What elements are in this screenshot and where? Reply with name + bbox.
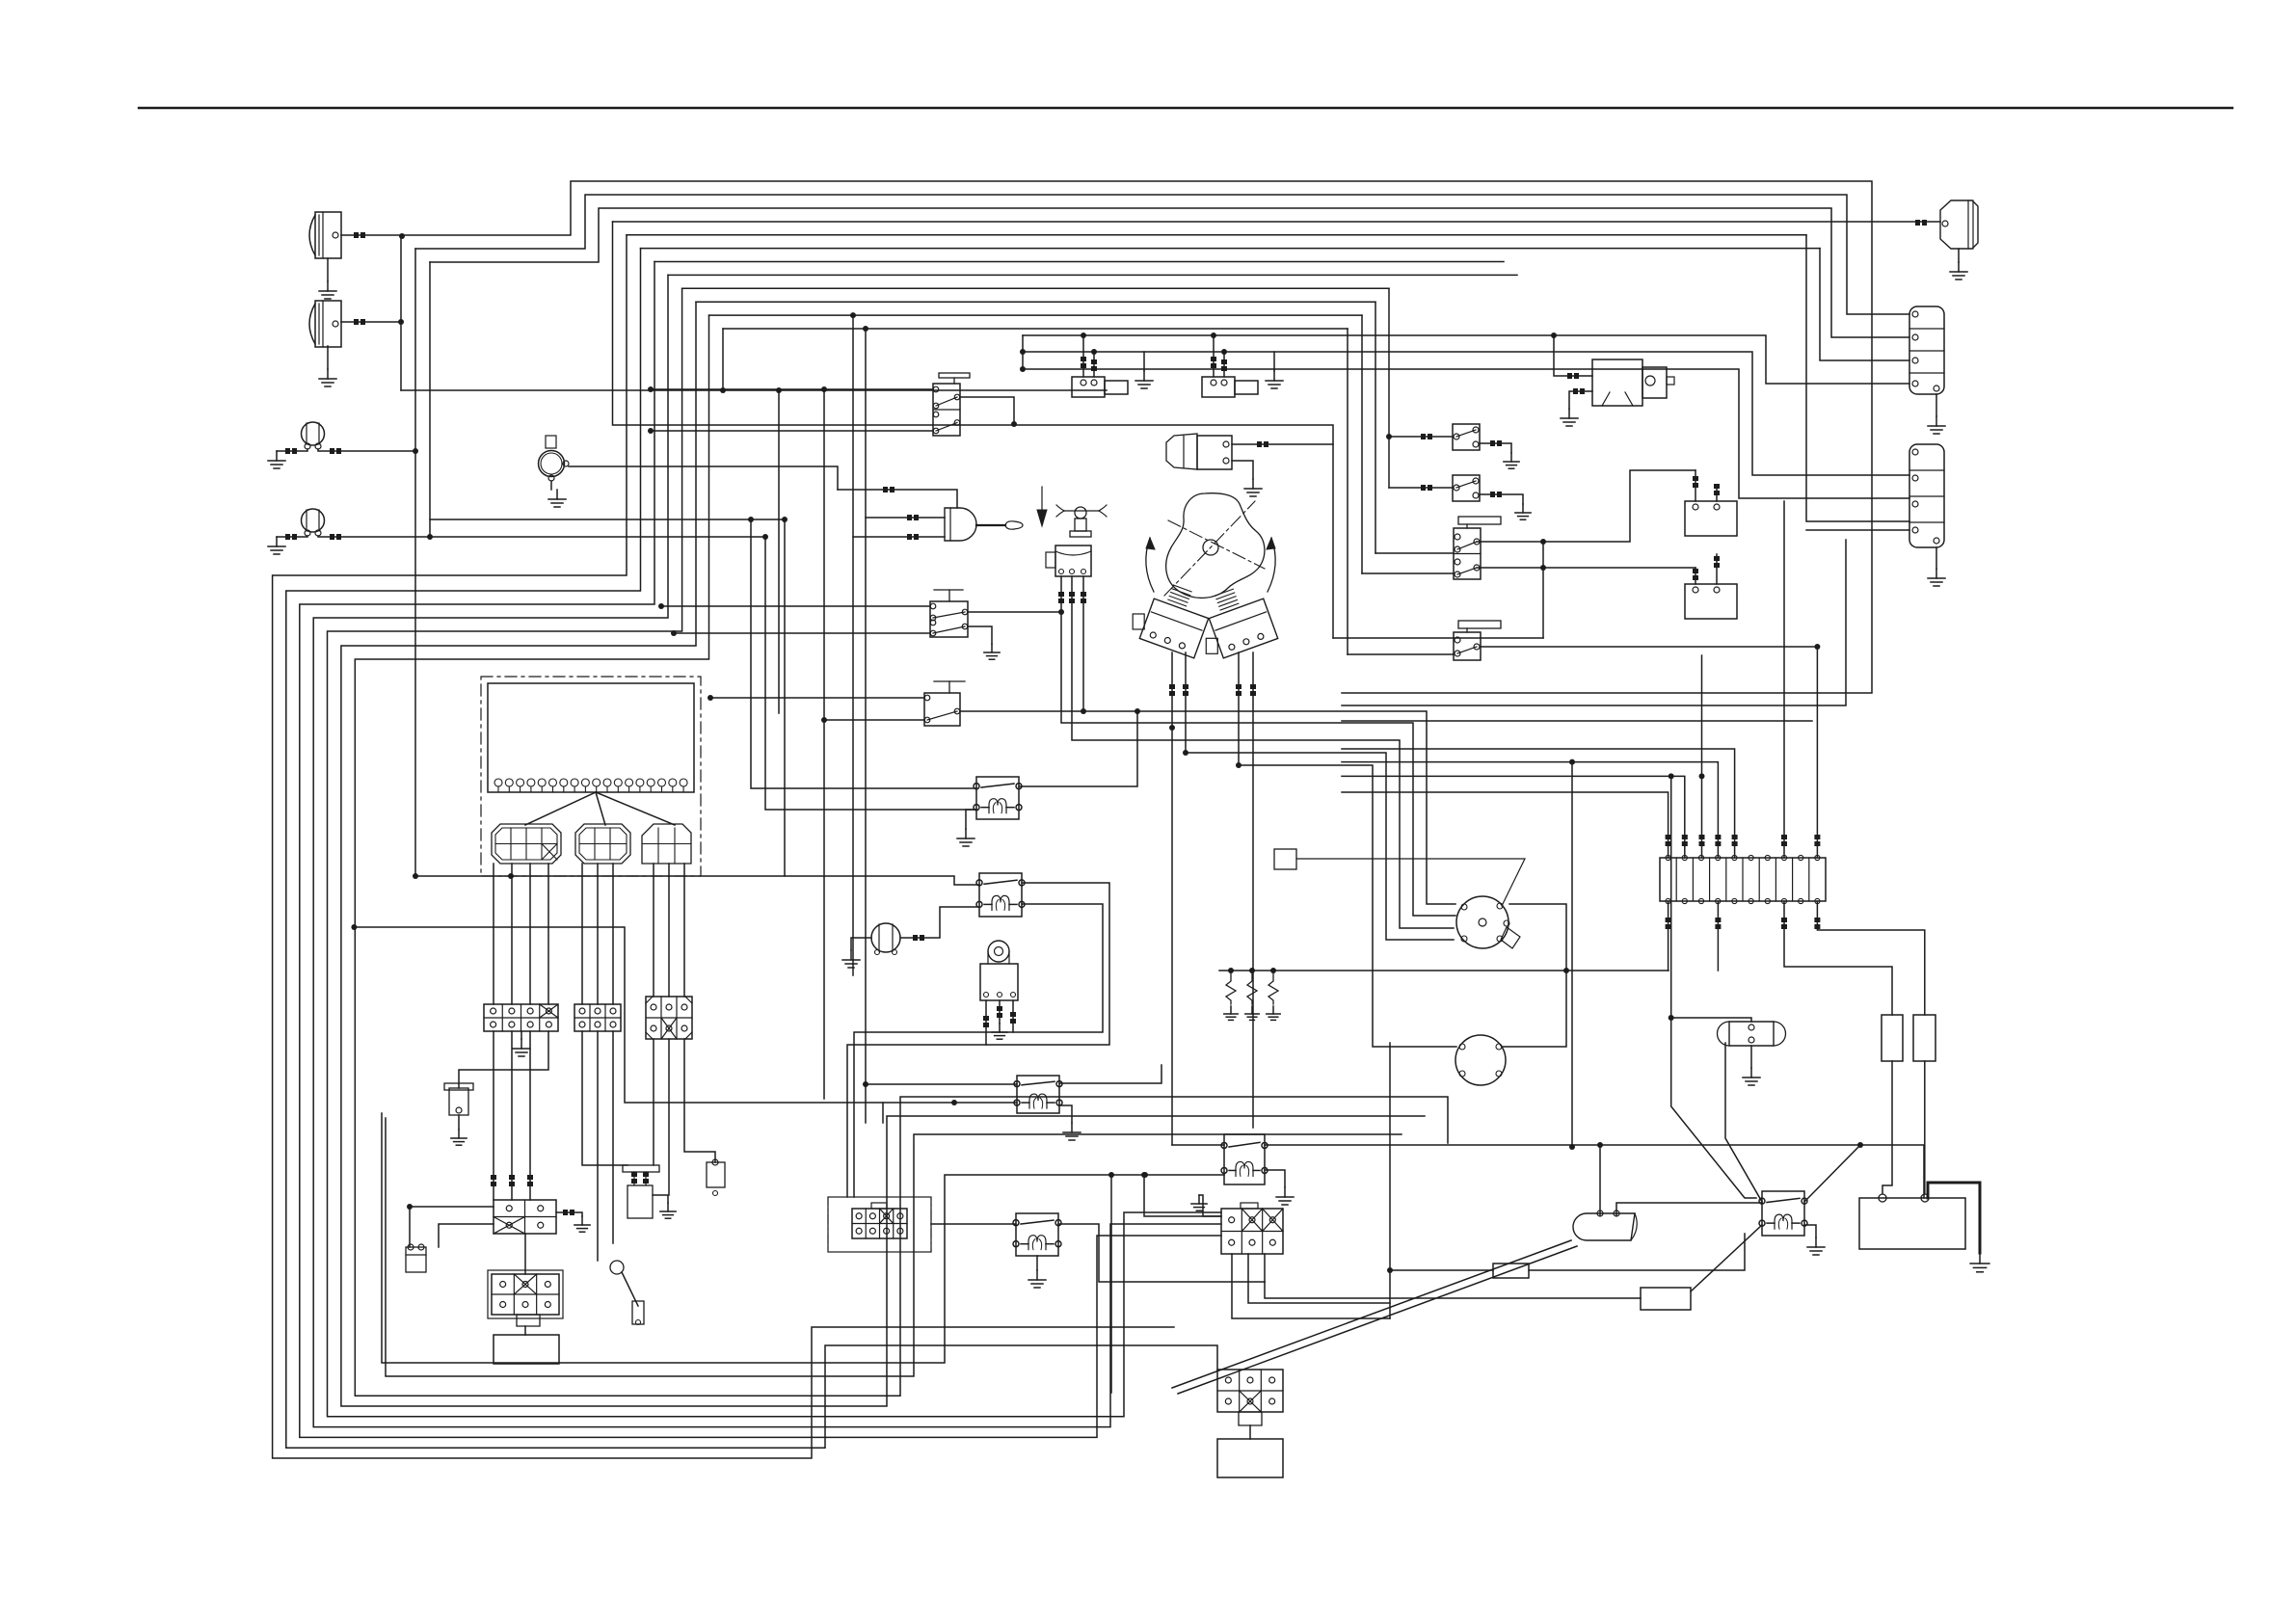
wire y405 drop	[778, 390, 780, 713]
battery BAT	[1859, 1194, 1965, 1249]
junction x1631 bot	[1569, 1144, 1575, 1150]
junction CX1 tap	[1141, 1172, 1147, 1178]
wire HR pin3	[1010, 1000, 1016, 1032]
instrument cluster fan wires	[525, 792, 675, 825]
wire x898 up	[865, 329, 867, 518]
wire RB1 drop	[1882, 1061, 1892, 1193]
junction RL6 tap	[1857, 1142, 1863, 1148]
wire RL5 riser	[1172, 1144, 1224, 1146]
wire riser x855	[823, 389, 825, 1099]
ground CX1	[1191, 1195, 1207, 1211]
wire bundle line 12 right drop	[1347, 329, 1348, 654]
wire bundle line 9 top run	[682, 287, 1389, 289]
junction y805 tap	[1669, 773, 1674, 779]
junction SW4 b	[821, 717, 827, 723]
junction res c	[1270, 968, 1276, 973]
wire CA pin 1 drop	[493, 864, 494, 1004]
arrow arc right	[1267, 538, 1275, 592]
wire FB riser x1765	[1699, 655, 1705, 858]
wire HR1 lead	[1915, 220, 1927, 226]
wire bundle line 8 top run	[668, 274, 1517, 276]
wire CC pin 1 drop	[653, 864, 654, 997]
horn H1	[539, 436, 570, 481]
ground RL6	[1804, 1225, 1825, 1255]
wire RES2 left	[1265, 1282, 1641, 1298]
wire FB bot4	[1814, 901, 1924, 1015]
wire CAP gnd	[1750, 1046, 1752, 1068]
wire flasher left	[851, 938, 871, 950]
wire JB2 p2 drop	[597, 1031, 599, 1261]
wire bundle loop 6 (left/bottom)	[286, 249, 1217, 1449]
junction RBL	[407, 1204, 413, 1210]
wire main y905	[415, 876, 979, 885]
wire handle b	[853, 534, 945, 975]
wire ign pin R2	[1250, 652, 1256, 1128]
junction SWC1 out1	[1540, 539, 1546, 545]
wire FB feed y777	[1342, 749, 1738, 858]
wire x885 up	[852, 315, 854, 537]
junction y905	[413, 873, 514, 879]
junction cap feed	[1669, 1015, 1674, 1021]
wire CB pin 3 drop	[612, 864, 614, 1004]
switch SW1 (light)	[933, 373, 970, 436]
horn relay HR	[980, 941, 1018, 1000]
wire CN2 pin4 jog	[1806, 529, 1909, 531]
resistor R7	[1493, 1264, 1529, 1278]
wire L1 right	[318, 448, 415, 454]
lamp block LB	[488, 1270, 563, 1318]
connector CX1	[1221, 1203, 1283, 1254]
lamp L1	[302, 422, 325, 449]
arrow down	[1037, 487, 1047, 526]
wire SW1 out	[960, 397, 1014, 423]
wire riser x779	[751, 519, 976, 788]
wire HL1 lead	[341, 232, 401, 238]
wire SW1 feed a	[651, 388, 933, 390]
junction FB x1765	[1699, 773, 1705, 779]
wire line y348	[1023, 335, 1909, 384]
ignition contact left	[1133, 585, 1209, 658]
wire RL6 diag1	[1725, 1043, 1762, 1202]
wire IC gnd	[1232, 461, 1253, 479]
junction SL1 b	[1091, 349, 1097, 355]
wire bundle line 11 top run	[709, 314, 1363, 316]
junction SM	[1551, 333, 1557, 338]
wire flasher right	[900, 907, 979, 941]
wire headlamp-R feed (bundle line 1)	[401, 181, 1872, 693]
junction HL1 node	[399, 233, 405, 239]
wire bundle line 11 right drop	[1361, 315, 1363, 573]
condenser box	[1274, 849, 1296, 869]
key switch center	[1203, 540, 1218, 555]
meter box MB	[494, 1335, 559, 1364]
junction SL2 b	[1221, 349, 1227, 355]
wire x1733 drop	[1671, 776, 1756, 1198]
relay RL6	[1759, 1191, 1807, 1236]
wire SWA feed	[1389, 434, 1453, 439]
wire SW4 feed b	[824, 719, 924, 721]
junction y383	[1020, 366, 1026, 372]
wire CX1 feed	[1144, 1175, 1221, 1216]
junction riser x779	[748, 517, 754, 522]
wire RL5 gnd	[1265, 1170, 1285, 1187]
wire CX1 p1 ext	[1389, 1270, 1391, 1318]
ground SL2	[1266, 371, 1283, 388]
wire bundle line 5 right drop	[1806, 235, 1909, 521]
wire SWB feed	[1389, 485, 1453, 491]
wire bundle loop 9 (left/bottom)	[328, 288, 1222, 1417]
wire handle a branch	[866, 1083, 1017, 1085]
wire JB2 p1 drop	[582, 1031, 627, 1165]
wire SWC1 feed1	[1375, 552, 1454, 554]
wire FB bot2	[1715, 901, 1721, 971]
wire FB bot1	[1666, 901, 1671, 971]
junction res b	[1249, 968, 1255, 973]
headlamp HR1	[1940, 200, 1978, 249]
wire bundle line 7 top run	[654, 261, 1504, 263]
arrow arc left	[1146, 538, 1155, 592]
wire x1631 drop	[1571, 762, 1573, 1147]
wire AC loop	[1502, 904, 1566, 1047]
wire ign pin R1	[1236, 652, 1241, 765]
wire L1 collector	[414, 249, 416, 876]
junction L2 node a	[427, 534, 433, 540]
junction RL3	[951, 1100, 957, 1105]
wire CA pin 4 drop	[547, 864, 549, 1004]
junction res a	[1228, 968, 1234, 973]
wire riser x814	[784, 519, 786, 876]
ground RBL	[574, 1216, 590, 1232]
junction SWA	[1386, 434, 1392, 439]
wire CC pin 2 drop	[668, 864, 670, 997]
ground RL3 stub	[1059, 1105, 1081, 1140]
wire main y962	[354, 927, 1017, 1103]
fuse box FB	[1660, 855, 1826, 903]
alternator AC	[1455, 1035, 1506, 1085]
wire pump riser	[1599, 1145, 1601, 1215]
wire pump diag	[1172, 1240, 1577, 1394]
ground CN2	[1928, 569, 1945, 586]
wire L2 left to ground	[277, 534, 307, 540]
junction riser x855	[821, 386, 827, 392]
handle pull	[945, 508, 1023, 541]
wire RB2 drop	[1924, 1061, 1926, 1193]
wire bundle line 4 (switch feed)	[613, 222, 1941, 638]
wire JB3 p3 drop	[684, 1039, 715, 1162]
key switch cam	[1166, 493, 1265, 599]
wire LB to MB	[524, 1326, 526, 1335]
wire JB1 p1 drop	[491, 1031, 496, 1200]
wire SWC1 feed2	[1362, 572, 1454, 574]
wire bundle loop 5 (left/bottom)	[273, 235, 1174, 1458]
junction block JB2	[574, 1004, 621, 1031]
ground HR	[992, 1024, 1007, 1039]
capacitor CAP	[1718, 1022, 1786, 1046]
wire SWC1 out2	[1477, 567, 1695, 569]
wire HL2 collector	[400, 235, 402, 390]
connector CN2	[1909, 444, 1944, 547]
junction riser x794	[762, 534, 768, 540]
indicator box IB	[1217, 1439, 1283, 1477]
junction y405	[776, 387, 782, 393]
junction SL1 a	[1081, 333, 1086, 338]
solenoid SL2	[1202, 335, 1258, 397]
lever switch LS	[610, 1261, 644, 1325]
wire FB bot3	[1781, 901, 1892, 1015]
ground SL1	[1135, 371, 1153, 388]
plug PL3	[707, 1159, 725, 1196]
ground CN1	[1928, 416, 1945, 434]
wire RBL to LB	[524, 1234, 526, 1274]
junction SW4	[707, 695, 713, 701]
key switch crosslines	[1164, 501, 1265, 596]
instrument cluster enclosure	[481, 677, 701, 876]
switch SW-horn (plunger)	[1046, 507, 1091, 576]
ground SWB	[1515, 504, 1531, 519]
ground HR1	[1950, 249, 1967, 279]
junction RL5	[1142, 1172, 1148, 1178]
wire SW4 out long	[960, 711, 1455, 904]
starter motor SM	[1592, 359, 1674, 406]
wire RL6 LB diag	[1691, 1225, 1762, 1291]
switch SW3	[930, 590, 968, 637]
wire feeder x400	[386, 1118, 1402, 1376]
junction block JB3	[646, 997, 692, 1039]
wire FB riser x1851	[1781, 501, 1787, 858]
wire line A	[430, 519, 785, 520]
wire CX1 ground	[1199, 1195, 1221, 1216]
junction SW1 a	[648, 386, 654, 392]
wire cap feed	[1671, 1018, 1751, 1022]
wire bundle line 10 top run	[696, 301, 1375, 303]
junction y365	[1020, 349, 1026, 355]
wire SW-horn pin3	[1081, 576, 1086, 711]
relay RL2	[976, 873, 1025, 917]
wire bundle loop 10 (left/bottom)	[341, 302, 1425, 1406]
plug PL1	[406, 1244, 426, 1272]
relay box D1	[1685, 470, 1737, 536]
wire SW3 out2	[968, 626, 992, 644]
wire CA pin 2 drop	[511, 864, 513, 1004]
junction L1 node	[413, 448, 418, 454]
junction HL2 node	[398, 319, 404, 325]
wire CB pin 1 drop	[581, 864, 583, 1004]
wire L2 right	[318, 534, 765, 540]
wire SWC2 feed	[1348, 653, 1454, 655]
relay RL5	[1221, 1134, 1268, 1184]
ground SM	[1561, 409, 1578, 426]
relay RL1	[974, 777, 1022, 819]
wire HL2 lead	[341, 319, 401, 325]
headlamp HL2	[309, 301, 341, 347]
solenoid SL1	[1072, 335, 1128, 397]
wire CB pin 2 drop	[597, 864, 599, 1004]
wire R7 right	[1529, 1234, 1745, 1270]
wire RL5 out	[1265, 1145, 1924, 1198]
wire SM lead2	[1569, 388, 1592, 409]
wire SW3 feed b	[674, 632, 930, 634]
relay RL3	[1014, 1076, 1062, 1113]
top horizontal rule	[139, 107, 2232, 109]
ground HL1	[319, 258, 336, 299]
wire CA pin 3 drop	[529, 864, 531, 1004]
junction block JB1	[484, 1004, 558, 1031]
junction R7	[1387, 1267, 1393, 1273]
wire ign pin L2	[1183, 652, 1188, 753]
wire lamp feed (bundle line 3)	[430, 208, 1909, 337]
junction SW1 out node	[1011, 421, 1017, 427]
wire SW1 feed b	[651, 430, 933, 432]
connector enclosure CE	[828, 1197, 931, 1252]
wire JB3 p2 drop	[668, 1039, 670, 1195]
lamp block stub	[517, 1315, 540, 1326]
relay block RBL	[494, 1200, 556, 1234]
junction SWC1 out2	[1540, 565, 1546, 571]
headlamp HL1	[309, 212, 341, 258]
wire PL2 gnd	[458, 1115, 460, 1130]
junction y962	[351, 924, 357, 930]
wire RL2 out a	[847, 883, 1109, 1197]
ground LS2	[660, 1203, 676, 1218]
wire CX1 p3	[1264, 1254, 1266, 1282]
wire CX1 p2	[1248, 1254, 1390, 1303]
wire RBL left a	[410, 1206, 494, 1208]
wire CX2 stub	[1249, 1425, 1251, 1439]
wire HR pin1	[983, 1000, 989, 1045]
junction x1631 top	[1569, 759, 1575, 765]
junction x898	[863, 326, 868, 332]
wire SW-horn pin1	[1058, 576, 1455, 916]
wire HR pin2	[997, 1000, 1002, 1024]
wire bundle line 6 top run	[641, 248, 1821, 250]
ground L1	[268, 451, 285, 468]
ground JB1	[513, 1031, 530, 1056]
ground RL4	[1028, 1256, 1046, 1288]
resistor trio R1 R2 R3	[1224, 971, 1280, 1020]
wire bundle line 12 (y405)	[401, 329, 1348, 390]
junction handle a	[863, 1081, 868, 1087]
plug PL2	[444, 1083, 473, 1115]
connector CA	[492, 824, 561, 864]
relay RL4	[1013, 1213, 1061, 1256]
wire RBL drop	[409, 1207, 411, 1247]
wire RL6 diag out	[1804, 1145, 1860, 1202]
wire feeder x396	[382, 1113, 1224, 1363]
wire SL2 ground	[1273, 352, 1275, 371]
wire L2 collector	[429, 262, 431, 537]
wire FB feed y822	[1342, 792, 1671, 858]
wire bundle line 9 right drop	[1388, 288, 1390, 488]
junction SW-horn node	[1081, 708, 1086, 714]
junction x885	[850, 312, 856, 318]
junction ign L1	[1169, 725, 1175, 731]
wire RL3 feed b	[882, 1103, 884, 1123]
switch SWA	[1453, 424, 1480, 450]
resistor RES2	[1641, 1288, 1691, 1310]
ground flasher	[842, 950, 860, 968]
ground RL5	[1276, 1187, 1294, 1205]
wire band y794	[1239, 765, 1456, 1047]
ground battery	[1970, 1253, 1989, 1272]
wire JB3 p1 drop	[653, 1039, 654, 1165]
relay box D2	[1685, 554, 1737, 619]
ground SW3	[984, 644, 1000, 659]
wire line y383	[1023, 369, 1909, 498]
instrument cluster body	[488, 683, 694, 792]
connector CE grid	[852, 1203, 907, 1238]
junction y680	[1814, 644, 1820, 650]
junction AC loop	[1563, 968, 1569, 973]
wire SW1 lines riser	[1022, 335, 1024, 369]
ground RL1	[957, 810, 976, 846]
connector CN1	[1909, 306, 1944, 394]
wire bundle loop 7 (left/bottom)	[300, 262, 1221, 1438]
wire bundle line 10 right drop	[1375, 302, 1376, 553]
junction riser x814	[782, 517, 788, 522]
wire RBL left b	[439, 1224, 494, 1247]
wire RL3 out	[1059, 1065, 1161, 1083]
wire lamp feed (bundle line 2)	[415, 195, 1909, 314]
wire JB1 p4 drop	[459, 1031, 548, 1088]
wire ign pin L1	[1169, 652, 1175, 1145]
wire JB1 p2 drop	[509, 1031, 515, 1200]
wire SL1 ground	[1143, 352, 1145, 371]
wire FB feed y790	[1342, 762, 1721, 858]
lamp L2	[302, 509, 325, 536]
wire CN1 ground	[1936, 394, 1937, 416]
junction SL2 a	[1211, 333, 1216, 338]
wire RL1 out	[1019, 711, 1137, 786]
ground IC	[1244, 479, 1262, 496]
arrow double horizontal	[1056, 505, 1107, 517]
wire handle top feed	[838, 487, 957, 508]
ground HL2	[319, 346, 336, 386]
switch SW4	[924, 681, 965, 726]
fuel pump FP	[1573, 1211, 1637, 1240]
wire bundle line 5 top run	[627, 234, 1806, 236]
wire line y365	[1023, 352, 1909, 475]
ground L2	[268, 537, 285, 554]
connector CC	[642, 824, 691, 864]
wire IC out	[1232, 441, 1333, 447]
wire RL2 out b	[854, 904, 1103, 1197]
junction SW3 out	[1058, 609, 1064, 615]
wire SM lead1	[1554, 335, 1592, 379]
flasher F1	[871, 923, 900, 955]
wire bundle loop 8 (left/bottom)	[313, 275, 1221, 1426]
wire SWB out	[1480, 492, 1523, 504]
wire SW3 feed a	[661, 605, 930, 607]
wire RL4 out	[1058, 1224, 1265, 1282]
wire aux west y732	[1342, 540, 1846, 705]
wire resistor feed	[1219, 970, 1669, 971]
junction k11 y405	[720, 387, 726, 393]
switch SWB	[1453, 475, 1480, 501]
wire aux y748	[1342, 720, 1812, 722]
ground SWA	[1504, 453, 1519, 468]
ignition coil IC	[1166, 434, 1232, 469]
wire SWA out	[1480, 440, 1511, 453]
wire LS2 gnd	[653, 1195, 668, 1203]
instrument cluster pins	[494, 779, 687, 792]
wire horn lead	[569, 466, 838, 490]
wire JB2 p3 drop	[612, 1031, 614, 1243]
connector CX2	[1217, 1370, 1283, 1425]
resistor block RB1	[1882, 1015, 1903, 1061]
wire RL5 drop	[1110, 1175, 1112, 1393]
wire riser x794	[765, 537, 976, 810]
wire CX1 p1	[1232, 1254, 1390, 1318]
